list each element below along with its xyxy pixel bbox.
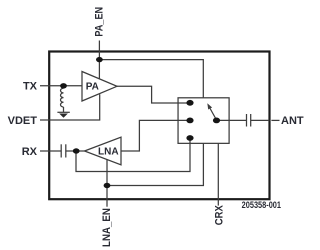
svg-text:PA_EN: PA_EN xyxy=(94,7,106,37)
svg-text:RX: RX xyxy=(22,146,38,158)
svg-text:VDET: VDET xyxy=(8,115,38,127)
svg-text:CRX: CRX xyxy=(214,205,226,225)
svg-text:LNA: LNA xyxy=(98,147,119,158)
svg-text:PA: PA xyxy=(86,82,99,93)
svg-text:TX: TX xyxy=(23,81,38,93)
svg-text:205358-001: 205358-001 xyxy=(242,201,282,211)
svg-text:LNA_EN: LNA_EN xyxy=(102,208,114,247)
svg-text:ANT: ANT xyxy=(281,115,304,127)
